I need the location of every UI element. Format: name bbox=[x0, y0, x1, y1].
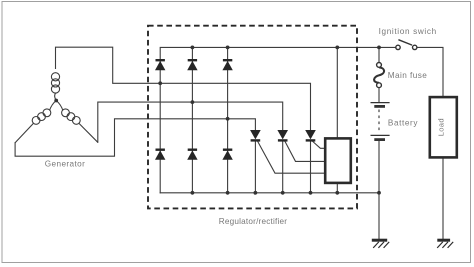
wire: phase 1 (generator top coil to rectifier column 1 and SCR3) bbox=[56, 47, 311, 130]
node: generator star point bbox=[54, 99, 58, 103]
junction: negative rail / control unit bbox=[335, 191, 339, 195]
svg-text:Ignition swich: Ignition swich bbox=[379, 27, 437, 36]
wire: battery negative down to ground bbox=[378, 141, 380, 240]
svg-text:Main fuse: Main fuse bbox=[388, 71, 428, 80]
ignition switch S1 bbox=[396, 40, 417, 50]
wire: positive rail (top) from column 1 to ignition switch bbox=[160, 47, 396, 192]
junction: top rail / column 3 bbox=[226, 46, 230, 50]
diode D2 (top row, column 2) bbox=[188, 60, 197, 70]
wire: positive rail from ignition switch to load bbox=[417, 47, 443, 97]
wire: SCR2 gate to control unit bbox=[285, 142, 325, 162]
wire: load to ground bbox=[442, 157, 444, 239]
control unit (regulator sensing block) bbox=[325, 138, 351, 183]
generator: right phase coil bbox=[56, 101, 98, 143]
regulator/rectifier enclosure (dashed box) bbox=[148, 26, 357, 209]
ground: battery negative bbox=[372, 240, 389, 248]
fuse F1 (main fuse) bbox=[374, 63, 384, 88]
generator: top phase coil bbox=[51, 73, 59, 101]
junction: phase 2 / column 2 bbox=[191, 100, 195, 104]
thyristor SCR2 bbox=[278, 130, 288, 140]
thyristor SCR1 bbox=[251, 130, 261, 140]
wire: SCR3 gate to control unit bbox=[313, 142, 325, 149]
generator: left phase coil bbox=[15, 101, 56, 143]
junction: negative rail / SCR2 bbox=[281, 191, 285, 195]
junction: top rail / fuse branch bbox=[377, 46, 381, 50]
wire: SCR1 cathode to negative rail bbox=[254, 142, 256, 193]
wire: rectifier column 2 bbox=[191, 47, 193, 192]
diode D6 (bottom row, column 3) bbox=[223, 150, 232, 160]
diode D1 (top row, column 1) bbox=[156, 60, 165, 70]
battery BT1 bbox=[371, 103, 390, 140]
junction: negative rail / SCR1 bbox=[254, 191, 258, 195]
wire: SCR3 cathode to negative rail bbox=[310, 142, 312, 193]
junction: negative rail / battery ground line bbox=[377, 191, 381, 195]
diode D4 (bottom row, column 1) bbox=[156, 150, 165, 160]
junction: phase 1 / column 1 bbox=[158, 81, 162, 85]
svg-text:Battery: Battery bbox=[388, 118, 418, 127]
junction: negative rail / column 2 bbox=[191, 191, 195, 195]
diode D5 (bottom row, column 2) bbox=[188, 150, 197, 160]
ground: load return bbox=[437, 240, 453, 248]
wire: SCR2 cathode to negative rail bbox=[282, 142, 284, 193]
svg-text:Generator: Generator bbox=[45, 160, 85, 169]
diode D3 (top row, column 3) bbox=[223, 60, 232, 70]
junction: top rail / column 2 bbox=[191, 46, 195, 50]
thyristor SCR3 bbox=[306, 130, 316, 140]
svg-text:Load: Load bbox=[436, 118, 445, 136]
junction: negative rail / SCR3 bbox=[309, 191, 313, 195]
junction: phase 3 / column 3 bbox=[226, 117, 230, 121]
wire: rectifier column 3 bbox=[227, 47, 229, 192]
load box bbox=[430, 97, 457, 157]
junction: top rail / control unit lead bbox=[335, 46, 339, 50]
wire: control unit lead to negative rail bbox=[336, 183, 338, 193]
svg-text:Regulator/rectifier: Regulator/rectifier bbox=[219, 217, 287, 226]
wire: phase 3 (generator left coil via bottom run to rectifier column 3 and SCR1) bbox=[15, 119, 255, 156]
wire: SCR1 gate to control unit bbox=[258, 142, 325, 174]
wire: negative rail (bottom) bbox=[160, 192, 379, 194]
wire: fuse to battery bbox=[378, 88, 380, 103]
junction: negative rail / column 3 bbox=[226, 191, 230, 195]
wire: phase 2 (generator right coil riser to rectifier column 2 and SCR2) bbox=[98, 102, 283, 142]
wire: fuse/battery branch from positive rail bbox=[378, 47, 380, 62]
wire: control unit lead from positive rail bbox=[336, 47, 338, 138]
